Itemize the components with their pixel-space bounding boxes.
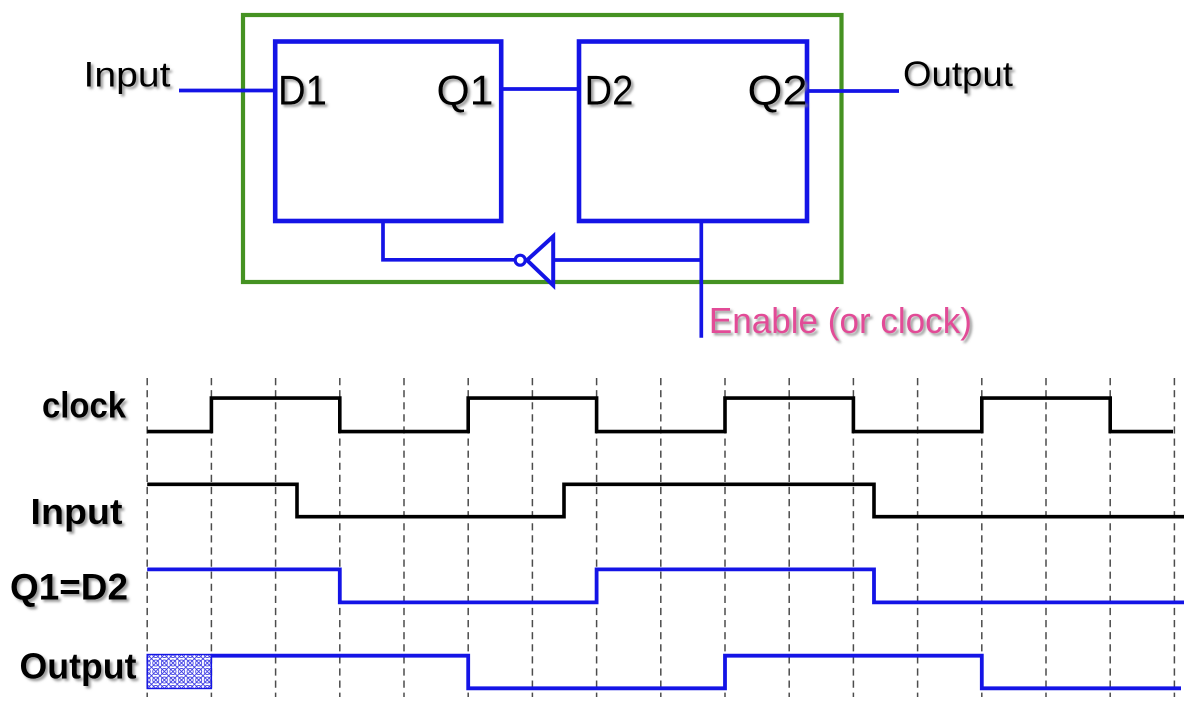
clock waveform trace (147, 398, 1173, 432)
wire: inverter input from enable node (553, 258, 701, 262)
wire: Input to D1 (179, 89, 277, 93)
svg-text:Output: Output (903, 55, 1013, 94)
svg-text:Enable (or clock): Enable (or clock) (709, 300, 972, 341)
latch U1 box (275, 42, 501, 222)
wire: Q1 to D2 (501, 87, 579, 91)
timing grid dashed verticals (147, 378, 1174, 697)
Output unknown-state hatched box (147, 655, 211, 689)
Output waveform trace (211, 656, 1181, 689)
wire: D1 enable drop and run to inverter output (383, 221, 514, 260)
inverter U3 bubble (515, 255, 525, 265)
svg-text:Output: Output (20, 645, 137, 686)
svg-text:D2: D2 (585, 66, 634, 113)
enclosure box (green) (243, 15, 842, 282)
svg-text:Input: Input (31, 491, 123, 532)
wire: enable vertical riser (699, 221, 703, 338)
inverter U3 triangle (527, 236, 553, 285)
svg-text:Q1: Q1 (437, 66, 494, 113)
svg-text:Q1=D2: Q1=D2 (10, 566, 128, 608)
latch U2 box (579, 42, 807, 222)
Q1=D2 waveform trace (147, 569, 1184, 602)
svg-text:D1: D1 (278, 66, 327, 113)
Input waveform trace (147, 484, 1184, 516)
svg-text:Input: Input (84, 56, 171, 95)
svg-text:Q2: Q2 (748, 66, 808, 113)
wire: Q2 to Output (807, 89, 899, 93)
svg-text:clock: clock (42, 385, 127, 426)
